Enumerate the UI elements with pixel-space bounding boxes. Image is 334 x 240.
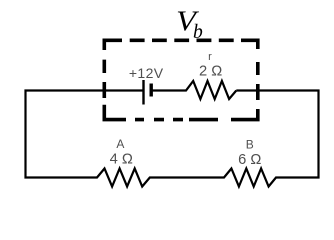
svg-text:6 Ω: 6 Ω	[238, 152, 261, 168]
svg-text:+12V: +12V	[129, 65, 164, 81]
svg-text:b: b	[193, 21, 203, 43]
svg-text:A: A	[116, 137, 124, 151]
svg-text:2 Ω: 2 Ω	[199, 63, 222, 79]
svg-text:B: B	[246, 138, 254, 152]
svg-text:4 Ω: 4 Ω	[110, 151, 133, 167]
svg-text:r: r	[208, 51, 212, 63]
